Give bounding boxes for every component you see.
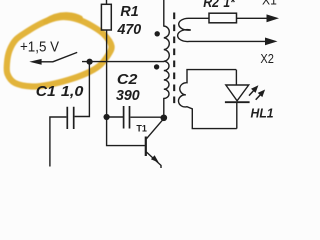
wire R1 bottom lead to node B — [106, 30, 108, 117]
transistor T1 collector — [146, 118, 164, 138]
X1 arrowhead — [267, 14, 280, 22]
LED emission arrow 1 — [249, 90, 254, 95]
svg-text:R2: R2 — [203, 0, 219, 10]
svg-text:X2: X2 — [260, 51, 274, 66]
highlight ellipse (yellow marker) — [7, 15, 112, 86]
LED HL1 cathode bar — [225, 101, 250, 103]
wire node A down to C1 — [75, 62, 90, 117]
transformer core (dashed) — [173, 13, 175, 108]
svg-text:R1: R1 — [120, 4, 138, 20]
svg-text:X1: X1 — [262, 0, 277, 7]
svg-text:1*: 1* — [223, 0, 235, 10]
capacitor C2 — [124, 106, 130, 129]
svg-text:+1,5 V: +1,5 V — [20, 38, 60, 55]
svg-text:C2: C2 — [117, 72, 138, 88]
wire node B down to T1 base — [107, 117, 145, 146]
switch SA1 stub wire — [41, 61, 54, 63]
wire switch to transformer tap — [82, 61, 164, 63]
wire to LED anode — [235, 70, 237, 85]
node A junction dot — [87, 59, 93, 65]
switch SA1 blade — [53, 52, 77, 61]
transistor T1 emitter with arrow — [146, 152, 161, 168]
LED emission arrow 2 — [256, 95, 261, 100]
node C junction dot — [160, 114, 167, 121]
svg-text:390: 390 — [116, 88, 140, 104]
transformer winding III (bottom right) — [179, 70, 237, 129]
transformer winding Ib (left bottom) — [164, 61, 169, 118]
polarity dot winding Ia — [155, 31, 160, 36]
transformer winding II (top right) — [178, 18, 267, 41]
svg-text:HL1: HL1 — [251, 106, 274, 120]
svg-text:470: 470 — [117, 22, 142, 38]
svg-text:T1: T1 — [136, 123, 147, 133]
transistor T1 base bar — [145, 137, 147, 157]
X2 arrowhead — [265, 38, 278, 46]
LED HL1 triangle — [226, 85, 249, 101]
wire node B to C2 — [107, 116, 123, 118]
capacitor C1 — [67, 107, 73, 129]
resistor R1 — [101, 4, 111, 30]
wire C2 right lead to node C — [130, 116, 163, 118]
wire C1 left lead — [50, 117, 67, 167]
wire LED cathode down — [236, 102, 238, 128]
resistor R2 — [209, 13, 237, 23]
svg-text:C1: C1 — [36, 84, 56, 100]
svg-text:1,0: 1,0 — [61, 84, 84, 100]
wire R2 to X1 — [237, 17, 268, 19]
transformer winding Ia (left top) — [164, 0, 169, 61]
wire R1 top lead — [106, 0, 108, 4]
polarity dot winding Ib — [154, 64, 159, 69]
node B junction dot — [104, 114, 110, 120]
switch SA1 arrow contact — [29, 59, 41, 65]
